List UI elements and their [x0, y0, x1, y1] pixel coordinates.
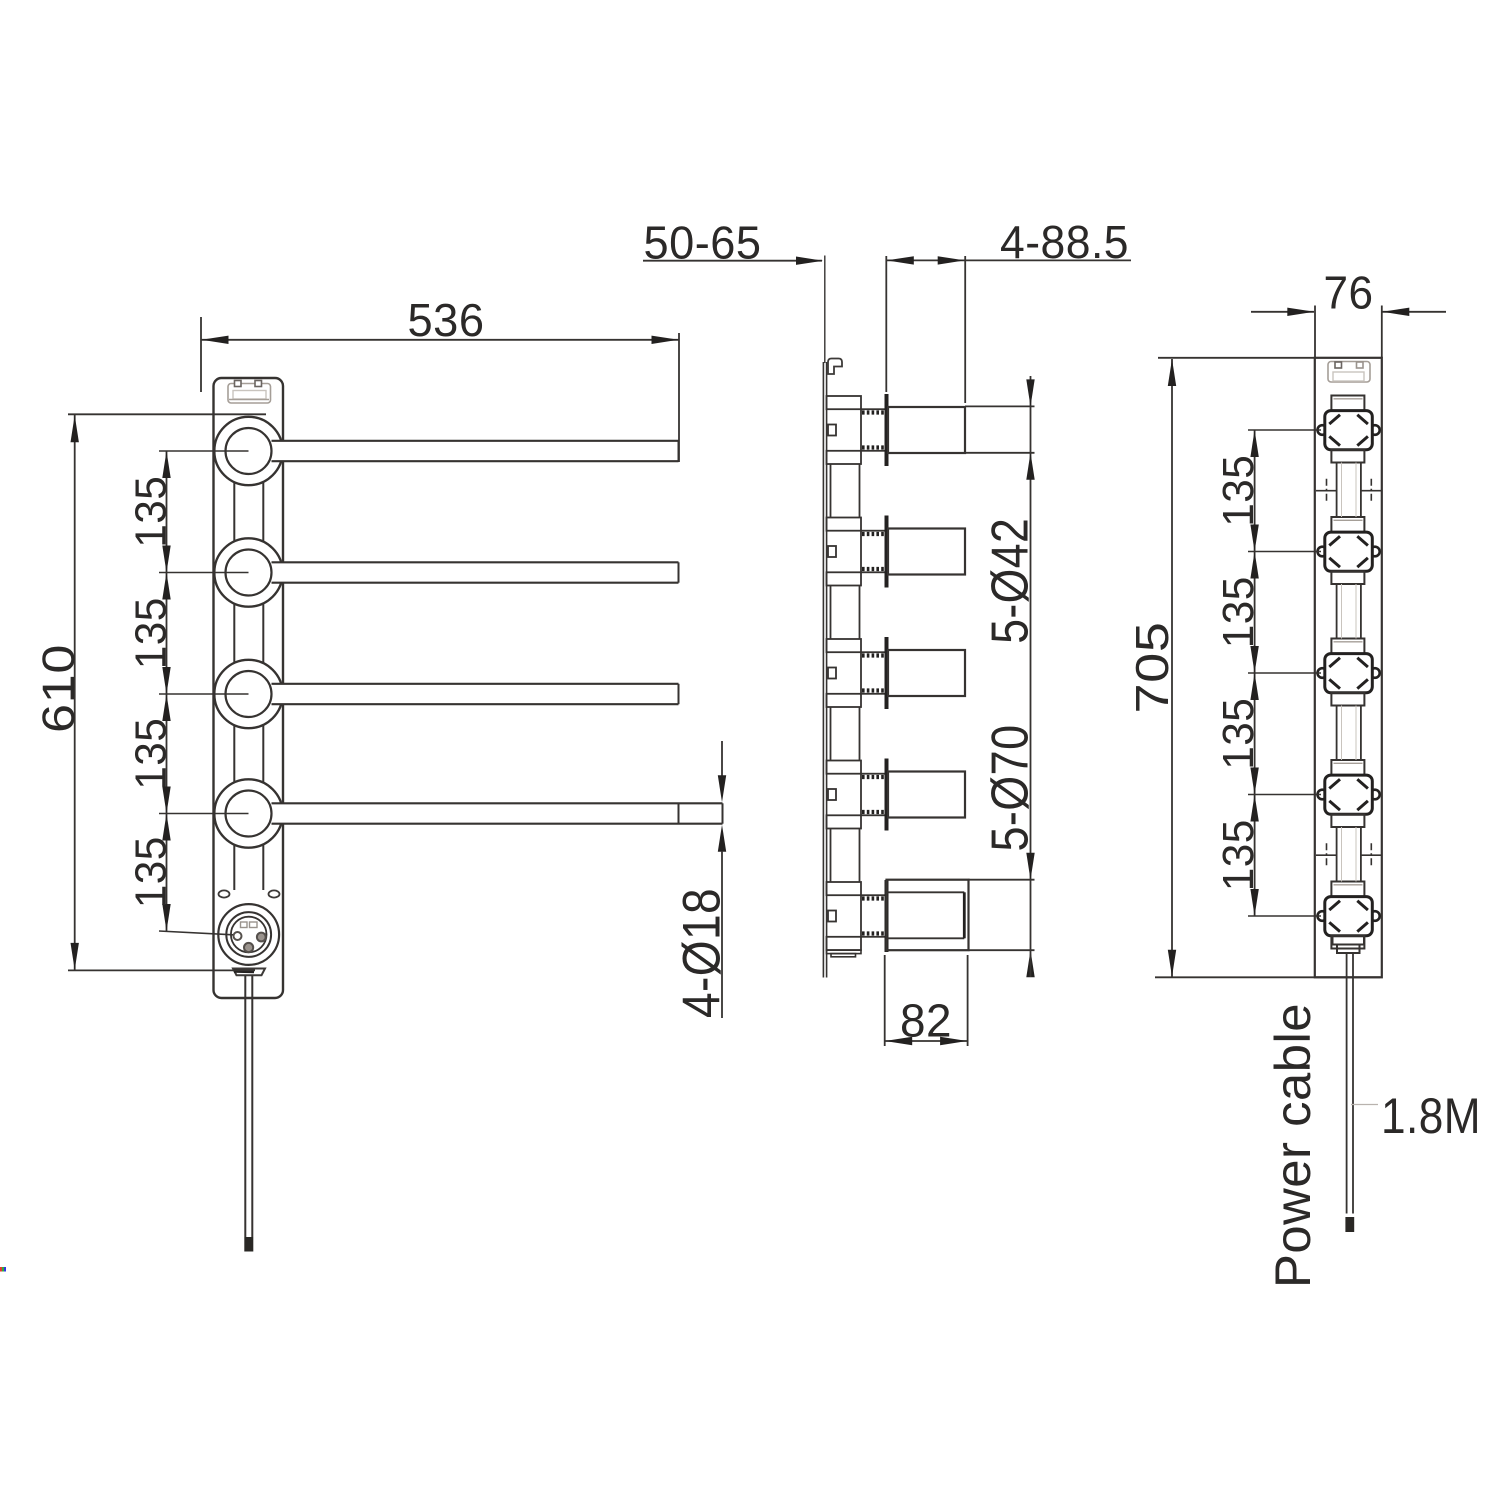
side view: pivot cylinder 4	[888, 772, 965, 818]
towel bar arm 4	[272, 803, 723, 823]
dimension 76 (plate width)	[1251, 267, 1446, 358]
side view: wall plate	[823, 256, 826, 978]
front view: body panel	[214, 378, 284, 998]
svg-text:76: 76	[1324, 267, 1374, 319]
svg-text:82: 82	[900, 995, 952, 1047]
svg-text:135: 135	[1214, 455, 1263, 527]
side view: mount bracket hub 5	[827, 880, 887, 952]
svg-text:5-Ø70: 5-Ø70	[982, 725, 1040, 852]
svg-text:135: 135	[127, 476, 176, 548]
rear view: junction box 1	[1318, 396, 1380, 463]
pivot inner circle 1	[226, 428, 272, 474]
side view: mount bracket hub 1	[827, 394, 887, 466]
power cord (rear view)	[1345, 953, 1354, 1232]
dimension 536 (top width)	[201, 294, 679, 462]
svg-text:4-88.5: 4-88.5	[1000, 216, 1129, 268]
svg-text:135: 135	[127, 836, 176, 908]
dimension 82 (box depth)	[885, 955, 968, 1047]
chain dimension 135 spacings (rear)	[1214, 430, 1321, 916]
rear view: junction box 3	[1318, 639, 1380, 706]
rear view: connecting channel	[1337, 463, 1361, 882]
side view: pivot cylinder 1	[888, 407, 965, 453]
svg-text:Power cable: Power cable	[1265, 1003, 1321, 1288]
chain dimension 135 spacings (front)	[127, 451, 249, 935]
dimensions 5-Ø42 / 5-Ø70	[965, 376, 1040, 977]
front view: body channel between pivots	[234, 483, 263, 891]
screw slots above socket	[219, 890, 280, 897]
svg-text:135: 135	[127, 597, 176, 669]
towel bar arm 3	[272, 684, 679, 704]
side view: mount bracket hub 4	[827, 759, 887, 831]
svg-text:705: 705	[1126, 622, 1178, 714]
power socket (front)	[218, 904, 279, 965]
side view: mount bracket hub 2	[827, 516, 887, 588]
label: Power cable	[1265, 1003, 1321, 1288]
swivel pivot hub 2	[214, 538, 678, 606]
side view: body column	[827, 464, 862, 957]
towel bar arm 1	[272, 441, 679, 461]
rear view: centerline cross markers	[1316, 479, 1382, 868]
svg-text:135: 135	[1214, 576, 1263, 648]
swivel pivot hub 4	[214, 779, 678, 847]
svg-text:135: 135	[1214, 698, 1263, 770]
dimension 610 (left overall height)	[33, 414, 266, 970]
svg-text:5-Ø42: 5-Ø42	[982, 518, 1040, 644]
towel bar arm 2	[272, 562, 679, 582]
socket lower collar	[233, 969, 265, 976]
side view: mount bracket hub 3	[827, 637, 887, 709]
stray pixel artifact bottom-left	[0, 1267, 6, 1272]
pivot inner circle 2	[226, 550, 272, 596]
rear view: cable outlet collar	[1333, 936, 1365, 953]
rear view: back plate	[1315, 358, 1382, 978]
dimension 705 (plate height)	[1126, 358, 1380, 978]
rear view: junction box 2	[1318, 517, 1380, 584]
rear view: junction box 4	[1318, 760, 1380, 827]
rear view: top clip (faint)	[1328, 362, 1370, 383]
svg-text:1.8M: 1.8M	[1381, 1088, 1481, 1144]
svg-text:135: 135	[1214, 819, 1263, 891]
swivel pivot hub 3	[214, 660, 678, 728]
power cord (front view)	[244, 976, 253, 1252]
dimension 4-88.5	[886, 216, 1131, 403]
svg-text:536: 536	[408, 294, 485, 346]
side view: top clip	[828, 359, 842, 375]
rear view: junction box 5	[1318, 882, 1380, 949]
pivot inner circle 3	[226, 671, 272, 717]
dimension 50-65 (wall distance)	[643, 217, 823, 269]
svg-text:50-65: 50-65	[644, 217, 762, 269]
side view: control box (bottom)	[887, 880, 969, 951]
pivot inner circle 4	[226, 791, 272, 837]
side view: pivot cylinder 3	[888, 650, 965, 696]
front view: top wall bracket	[228, 381, 271, 404]
label: 1.8M cable length	[1351, 1088, 1481, 1144]
dimension 4-Ø18 (bar diameter)	[673, 741, 732, 1018]
svg-text:135: 135	[127, 718, 176, 790]
svg-text:4-Ø18: 4-Ø18	[673, 888, 732, 1018]
swivel pivot hub 1	[214, 417, 678, 485]
side view: pivot cylinder 2	[888, 529, 965, 575]
svg-text:610: 610	[33, 644, 84, 733]
